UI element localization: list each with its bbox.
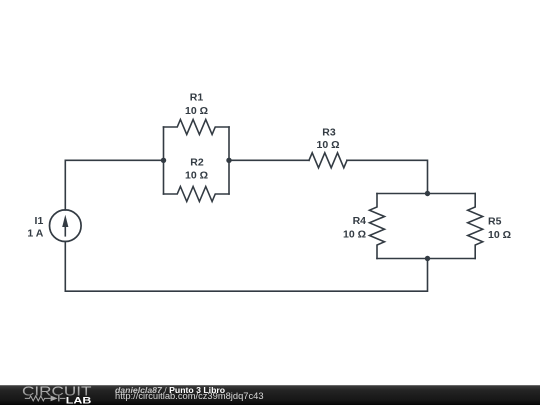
node A junction dot <box>161 158 166 163</box>
svg-text:R3: R3 <box>322 127 336 139</box>
wire R3 right lead to corner and down to R4/R5 top rail <box>347 160 428 193</box>
label I1 <box>35 215 44 227</box>
resistor R1 (top branch, horizontal) <box>164 120 230 135</box>
wire bottom rail of R4/R5 parallel section <box>377 258 475 260</box>
label R5 <box>488 216 502 228</box>
footer bar <box>0 385 540 405</box>
svg-text:10 Ω: 10 Ω <box>185 105 208 117</box>
wire from I1 bottom terminal down and right along bottom return to node D column <box>65 242 427 292</box>
wire parallel-section left connector (vertical) <box>163 127 165 194</box>
label R1 <box>190 92 204 104</box>
svg-text:10 Ω: 10 Ω <box>488 229 511 241</box>
resistor R3 (horizontal) <box>309 153 347 168</box>
credit line 2: url <box>115 392 264 401</box>
current source I1 <box>50 210 82 242</box>
svg-text:R1: R1 <box>190 92 204 104</box>
credit line 1: user / title <box>115 386 225 395</box>
resistor R4 (left branch, vertical) <box>370 194 385 259</box>
label R5 value 10 Ω <box>488 229 511 241</box>
CircuitLab logo <box>18 384 98 405</box>
wire top rail of R4/R5 parallel section <box>377 193 475 195</box>
svg-text:10 Ω: 10 Ω <box>185 170 208 182</box>
wire node B to R3 and on to right corner <box>229 159 309 161</box>
label I1 value 1 A <box>27 228 43 240</box>
label R2 <box>190 157 204 169</box>
wire from node A left then down to I1 top terminal <box>65 160 163 210</box>
resistor R5 (right branch, vertical) <box>468 194 483 259</box>
svg-text:I1: I1 <box>35 215 44 227</box>
node C junction dot (top rail) <box>425 191 430 196</box>
label R1 value 10 Ω <box>185 105 208 117</box>
node B junction dot <box>226 158 231 163</box>
svg-text:LAB: LAB <box>66 396 92 405</box>
svg-text:10 Ω: 10 Ω <box>316 139 339 151</box>
label R4 <box>353 215 367 227</box>
label R2 value 10 Ω <box>185 170 208 182</box>
label R4 value 10 Ω <box>343 229 366 241</box>
svg-text:R5: R5 <box>488 216 502 228</box>
wire parallel-section right connector (vertical) <box>228 127 230 194</box>
node D junction dot (bottom rail) <box>425 256 430 261</box>
svg-text:10 Ω: 10 Ω <box>343 229 366 241</box>
svg-text:R2: R2 <box>190 157 204 169</box>
svg-text:R4: R4 <box>353 215 367 227</box>
resistor R2 (bottom branch, horizontal) <box>164 187 230 202</box>
label R3 <box>322 127 336 139</box>
svg-text:1 A: 1 A <box>27 228 43 240</box>
label R3 value 10 Ω <box>316 139 339 151</box>
